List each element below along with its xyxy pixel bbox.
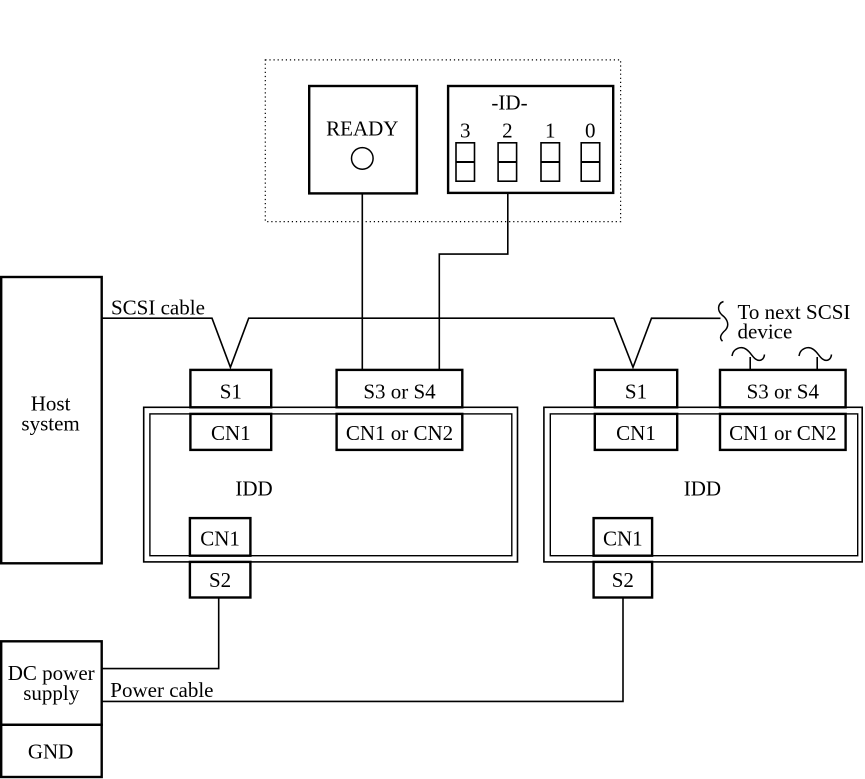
svg-text:CN1 or CN2: CN1 or CN2 <box>729 421 836 445</box>
svg-text:CN1: CN1 <box>211 421 251 445</box>
svg-text:0: 0 <box>585 119 596 143</box>
svg-text:CN1: CN1 <box>200 527 240 551</box>
svg-text:CN1: CN1 <box>616 421 656 445</box>
svg-text:S3 or S4: S3 or S4 <box>363 380 436 404</box>
svg-text:S1: S1 <box>220 380 242 404</box>
svg-text:supply: supply <box>23 681 80 705</box>
svg-text:2: 2 <box>502 119 513 143</box>
svg-text:-ID-: -ID- <box>491 91 527 115</box>
svg-text:S2: S2 <box>209 568 231 592</box>
svg-text:GND: GND <box>28 739 74 763</box>
svg-text:IDD: IDD <box>684 477 721 501</box>
svg-text:device: device <box>738 320 793 344</box>
svg-text:3: 3 <box>460 119 471 143</box>
svg-text:CN1 or CN2: CN1 or CN2 <box>346 421 453 445</box>
svg-text:IDD: IDD <box>235 477 272 501</box>
svg-text:SCSI cable: SCSI cable <box>111 296 205 320</box>
svg-text:S1: S1 <box>625 380 647 404</box>
svg-text:READY: READY <box>326 116 398 140</box>
svg-text:1: 1 <box>545 119 556 143</box>
svg-text:system: system <box>21 412 79 436</box>
svg-text:CN1: CN1 <box>603 527 643 551</box>
svg-text:S2: S2 <box>612 568 634 592</box>
svg-text:Power cable: Power cable <box>110 678 213 702</box>
svg-text:S3 or S4: S3 or S4 <box>747 380 820 404</box>
